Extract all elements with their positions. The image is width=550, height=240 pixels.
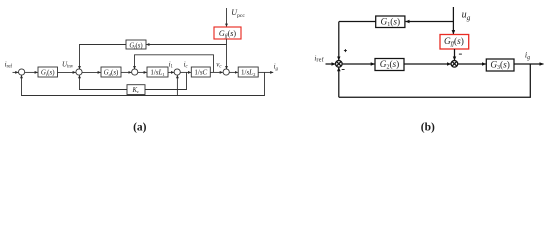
sign plus top of S1b xyxy=(344,49,347,52)
summing junction S3 xyxy=(132,69,138,75)
wire ug down to Gffb xyxy=(452,7,454,34)
svg-text:iref: iref xyxy=(314,54,324,63)
sign minus right of Gffb output xyxy=(459,53,462,55)
svg-text:ig: ig xyxy=(274,63,279,72)
wire Upcc down to Gff xyxy=(226,8,228,27)
wire G1 output to corner xyxy=(339,21,376,23)
wire S4 to 1/sC xyxy=(180,71,191,73)
wire iref to S1 xyxy=(13,71,19,73)
wire S2 to Gd xyxy=(82,71,101,73)
svg-text:G1(s): G1(s) xyxy=(381,16,401,28)
svg-text:i1: i1 xyxy=(169,60,174,69)
block G2(s) xyxy=(375,59,404,71)
svg-text:Gff(s): Gff(s) xyxy=(219,29,236,39)
block 1/sL2 xyxy=(238,67,258,77)
svg-text:1/sL1: 1/sL1 xyxy=(150,69,165,77)
block Gffb(s) feedforward (red) xyxy=(440,35,469,50)
svg-text:Gf(s): Gf(s) xyxy=(129,42,142,49)
wire G1 feedback down into S1b top xyxy=(338,22,340,61)
wire Gi to S2 xyxy=(58,71,76,73)
wire iref to S1b xyxy=(326,63,336,65)
svg-text:G3(s): G3(s) xyxy=(490,59,510,71)
summing junction S1b xyxy=(336,61,343,68)
wire S1 to Gi xyxy=(25,71,38,73)
wire Gff down to S5 xyxy=(226,39,228,69)
block 1/sL1 xyxy=(147,67,168,77)
sign minus bottom of S1b xyxy=(342,69,345,71)
wire ig feedback to S1 bottom xyxy=(22,72,265,95)
svg-text:(a): (a) xyxy=(133,121,147,133)
wire branch ug to G1 xyxy=(406,21,454,23)
block Kc xyxy=(127,85,145,95)
svg-text:(b): (b) xyxy=(421,121,435,133)
summing junction S4 xyxy=(174,69,180,75)
svg-text:ig: ig xyxy=(525,51,530,61)
svg-text:Kc: Kc xyxy=(132,87,140,94)
block G3(s) xyxy=(486,59,514,71)
svg-text:ug: ug xyxy=(462,10,471,22)
wire branch to Gf xyxy=(146,44,226,46)
summing junction S5 xyxy=(223,69,229,75)
wire G2 to S2b xyxy=(404,63,451,65)
wire output ig arrow xyxy=(258,71,273,73)
wire S3 to 1/sL1 xyxy=(138,71,147,73)
wire ig feedback branch to S4 bottom xyxy=(176,75,178,95)
wire S1b to G2 xyxy=(342,63,375,65)
wire vc tap to S3 top xyxy=(135,55,214,73)
wire Kc to S2 bottom xyxy=(80,75,128,89)
svg-text:Gd(s): Gd(s) xyxy=(104,69,119,77)
block Gi(s) xyxy=(38,67,58,77)
svg-text:1/sL2: 1/sL2 xyxy=(241,69,256,77)
block Gff(s) feedforward (red) xyxy=(214,27,241,39)
svg-text:iref: iref xyxy=(5,60,13,69)
wire output ig arrow xyxy=(514,63,544,65)
wire 1/sL1 to S4 xyxy=(168,71,174,73)
svg-text:Uinv: Uinv xyxy=(62,60,74,69)
wire 1/sC to S5 xyxy=(210,71,222,73)
svg-text:vc: vc xyxy=(216,60,222,69)
block Gf(s) xyxy=(126,40,146,49)
svg-text:G2(s): G2(s) xyxy=(380,59,400,71)
summing junction S1 xyxy=(19,69,25,75)
wire output feedback to S1b xyxy=(339,64,531,97)
wire S2b to G3 xyxy=(458,63,486,65)
wire bottom feedback up into S1b bottom xyxy=(338,67,340,97)
wire S5 to 1/sL2 xyxy=(229,71,238,73)
svg-text:Upcc: Upcc xyxy=(231,8,245,19)
wire Gf to S2 top xyxy=(80,45,127,69)
summing junction S2 xyxy=(76,69,82,75)
svg-text:ic: ic xyxy=(184,60,189,69)
wire Gd to S3 xyxy=(121,71,131,73)
block Gd(s) xyxy=(101,67,121,77)
svg-text:1/sC: 1/sC xyxy=(194,69,207,77)
wire ic tap down to Kc xyxy=(145,72,187,89)
svg-text:Gff(s): Gff(s) xyxy=(444,36,464,48)
summing junction S2b xyxy=(451,61,458,68)
block G1(s) xyxy=(376,16,405,28)
wire Gffb down to S2b xyxy=(454,49,456,60)
block 1/sC xyxy=(191,67,210,77)
svg-text:Gi(s): Gi(s) xyxy=(41,69,55,77)
